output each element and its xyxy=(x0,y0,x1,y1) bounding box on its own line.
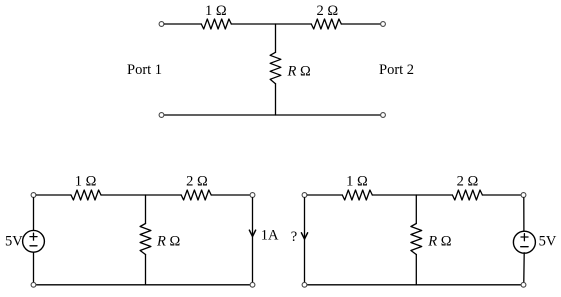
wire xyxy=(482,194,520,196)
voltage source V2 5V (independent source, + up) xyxy=(513,231,535,253)
terminal: port 1 bottom xyxy=(159,113,164,118)
resistor 2 ohm (bottom-left circuit) xyxy=(181,190,211,200)
terminal: port 2 bottom xyxy=(381,113,386,118)
svg-text:Port 1: Port 1 xyxy=(127,62,162,78)
wire xyxy=(231,23,311,25)
wire xyxy=(523,198,525,231)
node: bottom-right circuit, top-right corner xyxy=(521,193,526,198)
svg-text:5V: 5V xyxy=(5,233,23,249)
svg-text:1A: 1A xyxy=(261,227,279,243)
svg-text:?: ? xyxy=(291,229,297,245)
wire xyxy=(307,194,342,196)
wire xyxy=(36,194,71,196)
wire xyxy=(33,252,35,282)
current arrow 1A (downward) xyxy=(249,230,255,236)
resistor 2 ohm (bottom-right circuit) xyxy=(452,190,482,200)
svg-text:1 Ω: 1 Ω xyxy=(346,174,368,190)
wire xyxy=(341,23,380,25)
wire xyxy=(415,195,417,224)
wire xyxy=(36,284,250,286)
terminal: port 2 top xyxy=(381,22,386,27)
resistor 1 ohm (bottom-right circuit) xyxy=(342,190,372,200)
resistor 1 ohm (bottom-left circuit) xyxy=(71,190,101,200)
node: bottom-right circuit, bottom-left corner xyxy=(302,282,307,287)
node: bottom-left circuit, bottom-left corner xyxy=(31,282,36,287)
wire xyxy=(523,253,525,282)
node: bottom-left circuit, bottom-right corner xyxy=(250,282,255,287)
node: bottom-right circuit, top-left corner xyxy=(302,193,307,198)
svg-text:2 Ω: 2 Ω xyxy=(186,174,208,190)
wire xyxy=(252,198,254,282)
svg-text:1 Ω: 1 Ω xyxy=(75,174,97,190)
svg-text:R Ω: R Ω xyxy=(156,233,180,249)
wire xyxy=(372,194,452,196)
wire xyxy=(275,24,277,52)
wire xyxy=(304,198,306,282)
wire xyxy=(101,194,181,196)
svg-text:1 Ω: 1 Ω xyxy=(205,3,227,19)
wire xyxy=(415,255,417,285)
svg-text:Port 2: Port 2 xyxy=(379,62,414,78)
svg-text:2 Ω: 2 Ω xyxy=(316,3,338,19)
svg-text:R Ω: R Ω xyxy=(427,233,451,249)
svg-text:R Ω: R Ω xyxy=(287,64,311,80)
node: bottom-right circuit, bottom-right corner xyxy=(521,282,526,287)
voltage source V1 5V (independent source, + up) xyxy=(23,230,45,252)
wire xyxy=(145,195,147,224)
wire xyxy=(275,84,277,115)
wire xyxy=(164,23,201,25)
wire xyxy=(164,114,380,116)
resistor R ohm (bottom-right circuit, shunt) xyxy=(411,224,422,255)
resistor R ohm (top circuit, shunt) xyxy=(270,52,281,83)
node: bottom-left circuit, top-right corner xyxy=(250,193,255,198)
terminal: port 1 top xyxy=(159,22,164,27)
svg-text:2 Ω: 2 Ω xyxy=(457,174,479,190)
wire xyxy=(307,284,521,286)
resistor 2 ohm (top circuit, series right) xyxy=(311,19,341,29)
wire xyxy=(145,255,147,285)
svg-text:5V: 5V xyxy=(539,233,557,249)
wire xyxy=(33,198,35,231)
current arrow ? (downward, unknown current) xyxy=(301,233,307,239)
resistor R ohm (bottom-left circuit, shunt) xyxy=(140,224,151,255)
wire xyxy=(211,194,250,196)
node: bottom-left circuit, top-left corner xyxy=(31,193,36,198)
resistor 1 ohm (top circuit, series left) xyxy=(201,19,231,29)
